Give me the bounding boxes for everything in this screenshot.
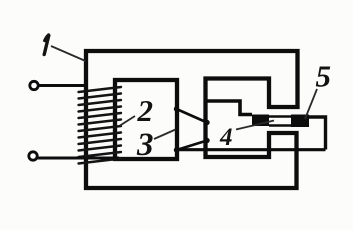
svg-text:4: 4 [219, 124, 233, 151]
svg-text:2: 2 [137, 93, 154, 128]
svg-text:5: 5 [316, 58, 332, 93]
svg-text:3: 3 [136, 127, 154, 163]
